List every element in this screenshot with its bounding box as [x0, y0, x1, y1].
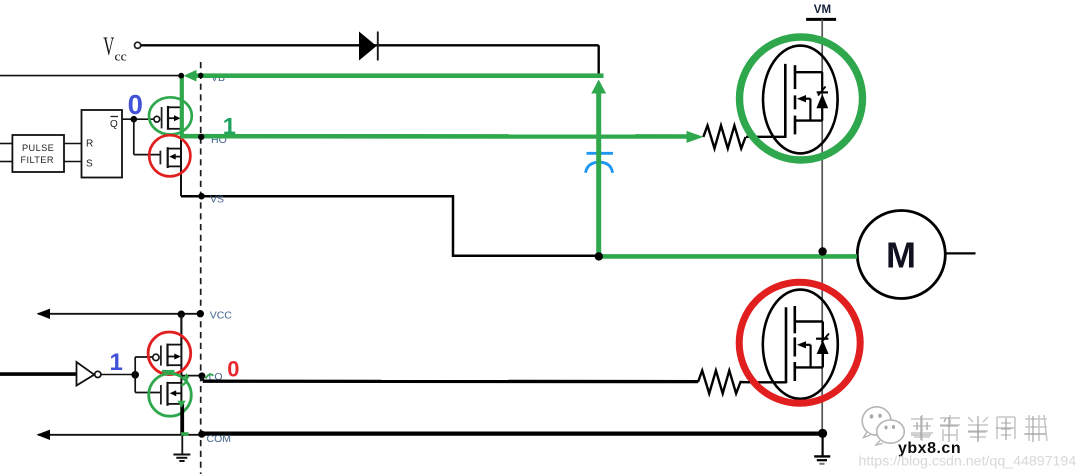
svg-text:COM: COM: [207, 433, 232, 445]
svg-text:cc: cc: [115, 49, 128, 64]
svg-text:V: V: [103, 32, 114, 61]
svg-text:PULSE: PULSE: [22, 143, 54, 153]
svg-text:0: 0: [128, 89, 143, 120]
svg-text:0: 0: [227, 356, 239, 381]
svg-text:FILTER: FILTER: [21, 155, 54, 165]
svg-text:S: S: [86, 159, 93, 170]
svg-text:VCC: VCC: [210, 310, 233, 322]
svg-text:VM: VM: [814, 4, 831, 16]
svg-text:1: 1: [223, 113, 236, 139]
svg-text:1: 1: [110, 349, 123, 376]
svg-text:VS: VS: [210, 194, 224, 206]
svg-text:R: R: [86, 139, 93, 150]
svg-text:Q: Q: [110, 119, 118, 130]
svg-text:https://blog.csdn.net/qq_44897: https://blog.csdn.net/qq_44897194: [859, 453, 1077, 469]
svg-text:M: M: [886, 235, 916, 276]
